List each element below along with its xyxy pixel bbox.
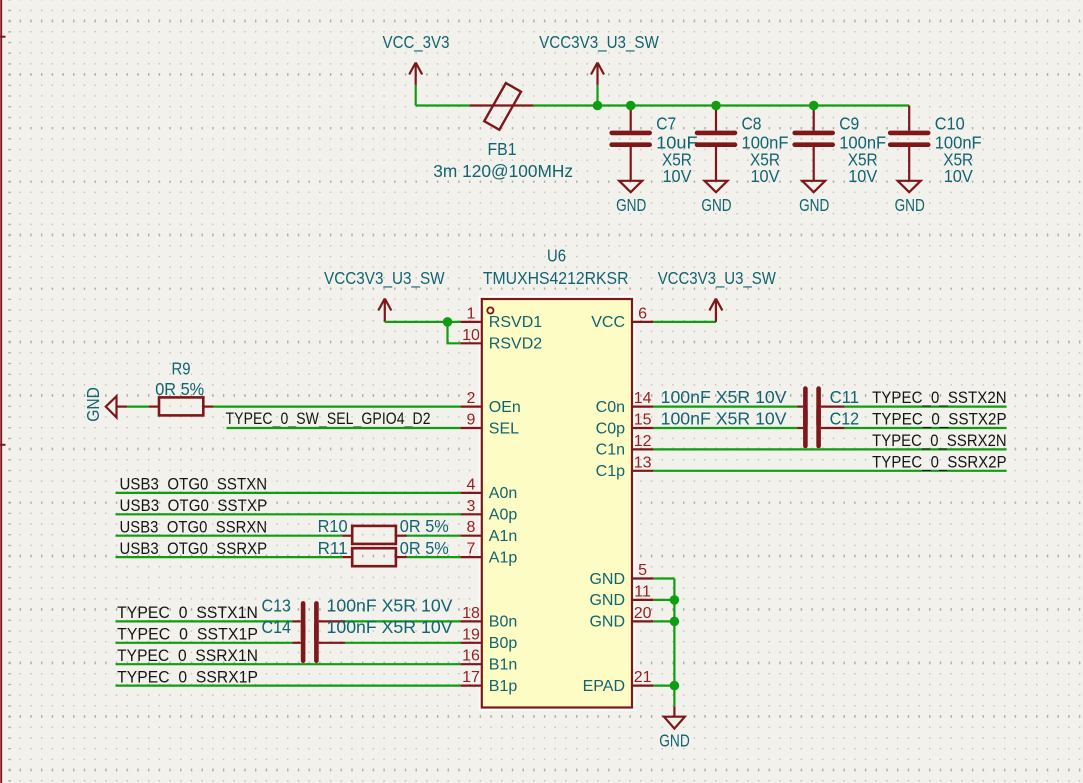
svg-text:3m 120@100MHz: 3m 120@100MHz xyxy=(433,161,573,181)
svg-text:USB3_OTG0_SSTXP: USB3_OTG0_SSTXP xyxy=(120,496,268,515)
svg-text:TYPEC_0_SSRX2P: TYPEC_0_SSRX2P xyxy=(872,452,1007,471)
svg-text:RSVD2: RSVD2 xyxy=(489,336,542,353)
pin 6 VCC (right) xyxy=(591,305,653,331)
wire U6 to C12 xyxy=(653,427,797,429)
pin 17 B1p (left) xyxy=(460,669,517,695)
power symbol VCC3V3_U3_SW top xyxy=(539,32,659,85)
svg-text:A0p: A0p xyxy=(489,507,518,524)
svg-text:GND: GND xyxy=(589,614,625,631)
svg-text:C0p: C0p xyxy=(596,420,625,437)
svg-text:R11: R11 xyxy=(318,538,348,558)
svg-text:USB3_OTG0_SSRXP: USB3_OTG0_SSRXP xyxy=(120,539,268,558)
power symbol VCC3V3_U3_SW right xyxy=(658,268,777,322)
svg-text:19: 19 xyxy=(462,626,480,643)
capacitor C13 100nF X5R 10V xyxy=(262,596,453,640)
svg-text:C8: C8 xyxy=(742,114,762,134)
svg-text:C9: C9 xyxy=(839,114,859,134)
svg-text:C13: C13 xyxy=(262,596,292,616)
svg-text:C7: C7 xyxy=(656,114,676,134)
svg-text:VCC3V3_U3_SW: VCC3V3_U3_SW xyxy=(539,32,659,53)
ground GND under C8 xyxy=(701,181,731,215)
svg-text:TYPEC_0_SSTX1P: TYPEC_0_SSTX1P xyxy=(117,625,258,644)
svg-text:10V: 10V xyxy=(751,166,780,186)
wire USB3_OTG0_SSRXP to R11 xyxy=(116,556,343,558)
wire USB3_OTG0_SSRXN to R10 xyxy=(116,535,343,537)
pin 9 SEL (left) xyxy=(460,412,519,438)
ferrite bead FB1 3m 120@100MHz xyxy=(433,83,573,181)
svg-text:GND: GND xyxy=(701,195,731,215)
svg-text:12: 12 xyxy=(634,433,652,450)
pin 21 EPAD (right) xyxy=(583,669,654,695)
svg-text:RSVD1: RSVD1 xyxy=(489,314,542,331)
IC U6 TMUXHS4212RKSR xyxy=(479,246,636,711)
svg-text:C12: C12 xyxy=(830,409,860,429)
svg-text:B0p: B0p xyxy=(489,635,518,652)
svg-text:GND: GND xyxy=(589,592,625,609)
wire GND bus vertical xyxy=(673,579,675,707)
pin 2 OEn (left) xyxy=(460,390,521,416)
resistor R10 0R 5% xyxy=(318,516,450,544)
svg-text:15: 15 xyxy=(634,412,652,429)
wire R9 to pin 2 OEn xyxy=(214,406,461,408)
svg-text:C0n: C0n xyxy=(596,399,625,416)
wire VCC3V3_U3_SW to pin 1 xyxy=(385,321,461,323)
svg-text:11: 11 xyxy=(634,583,651,600)
svg-text:VCC3V3_U3_SW: VCC3V3_U3_SW xyxy=(658,268,777,289)
pin 3 A0p (left) xyxy=(460,498,517,524)
svg-text:7: 7 xyxy=(467,541,476,558)
wire U6 to C11 xyxy=(653,406,797,408)
svg-text:100nF X5R 10V: 100nF X5R 10V xyxy=(327,596,453,616)
wire TYPEC_0_SSRX1N to U6 xyxy=(116,663,461,665)
resistor R9 0R 5% xyxy=(149,359,214,416)
svg-text:USB3_OTG0_SSTXN: USB3_OTG0_SSTXN xyxy=(120,475,268,494)
junction GND bus pin 20 xyxy=(670,617,680,627)
svg-text:TYPEC_0_SSTX2P: TYPEC_0_SSTX2P xyxy=(872,410,1007,429)
svg-text:C1p: C1p xyxy=(596,463,625,480)
pin 7 A1p (left) xyxy=(460,541,517,567)
wire U6 to TYPEC_0_SSRX2P xyxy=(653,470,1006,472)
svg-text:GND: GND xyxy=(616,195,646,215)
svg-text:GND: GND xyxy=(895,195,925,215)
svg-text:8: 8 xyxy=(467,519,476,536)
svg-text:1: 1 xyxy=(467,305,476,322)
svg-text:GND: GND xyxy=(659,730,690,750)
ground GND under C10 xyxy=(895,181,925,215)
pin 20 GND (right) xyxy=(589,605,653,631)
svg-text:VCC_3V3: VCC_3V3 xyxy=(383,32,450,53)
pin 11 GND (right) xyxy=(589,583,653,609)
pin 5 GND (right) xyxy=(589,562,653,588)
ground GND at R9 (left arrow) xyxy=(83,387,127,422)
capacitor C11 100nF X5R 10V xyxy=(661,387,860,424)
svg-text:B1p: B1p xyxy=(489,678,518,695)
svg-text:0R 5%: 0R 5% xyxy=(400,538,449,558)
pin 13 C1p (right) xyxy=(596,454,654,480)
junction C7 at VCC rail xyxy=(626,101,636,111)
wire pin 5 GND xyxy=(653,577,674,579)
capacitor C9 100nF X5R 10V xyxy=(795,106,887,187)
svg-text:TYPEC_0_SSTX1N: TYPEC_0_SSTX1N xyxy=(117,603,258,622)
wire VCC3V3_U3_SW drop xyxy=(596,85,598,106)
svg-text:21: 21 xyxy=(634,669,652,686)
wire VCC rail FB1 to C10 xyxy=(533,104,909,106)
svg-text:13: 13 xyxy=(634,454,652,471)
wire C14 to U6 xyxy=(345,642,460,644)
svg-text:TMUXHS4212RKSR: TMUXHS4212RKSR xyxy=(483,268,629,288)
svg-text:100nF X5R 10V: 100nF X5R 10V xyxy=(661,387,787,407)
svg-text:4: 4 xyxy=(467,476,476,493)
pin 4 A0n (left) xyxy=(460,476,517,502)
svg-text:U6: U6 xyxy=(547,246,566,266)
wire junction to pin 10 xyxy=(448,322,461,343)
svg-text:B1n: B1n xyxy=(489,657,517,674)
svg-text:16: 16 xyxy=(462,648,480,665)
wire C13 to U6 xyxy=(345,620,460,622)
ground GND below U6 xyxy=(659,706,690,750)
wire R11 to U6 xyxy=(407,556,460,558)
svg-text:3: 3 xyxy=(467,498,476,515)
capacitor C12 100nF X5R 10V xyxy=(661,409,860,446)
svg-text:10: 10 xyxy=(462,327,480,344)
wire U6 to TYPEC_0_SSRX2N xyxy=(653,448,1006,450)
svg-text:20: 20 xyxy=(634,605,652,622)
svg-text:18: 18 xyxy=(462,605,480,622)
svg-text:17: 17 xyxy=(462,669,480,686)
svg-text:TYPEC_0_SW_SEL_GPIO4_D2: TYPEC_0_SW_SEL_GPIO4_D2 xyxy=(226,409,431,428)
capacitor C10 100nF X5R 10V xyxy=(890,106,982,187)
svg-text:OEn: OEn xyxy=(489,399,521,416)
pin 10 RSVD2 (left) xyxy=(460,327,542,353)
svg-text:C10: C10 xyxy=(935,114,965,134)
svg-text:TYPEC_0_SSRX2N: TYPEC_0_SSRX2N xyxy=(872,431,1007,450)
ground GND under C9 xyxy=(799,181,829,215)
svg-text:A0n: A0n xyxy=(489,485,517,502)
pin 19 B0p (left) xyxy=(460,626,517,652)
pin 18 B0n (left) xyxy=(460,605,517,631)
wire R10 to U6 xyxy=(407,535,460,537)
pin 12 C1n (right) xyxy=(596,433,654,459)
svg-text:R9: R9 xyxy=(172,359,191,379)
junction GND bus pin 11 xyxy=(670,595,680,605)
svg-text:USB3_OTG0_SSRXN: USB3_OTG0_SSRXN xyxy=(120,517,268,536)
svg-text:TYPEC_0_SSRX1P: TYPEC_0_SSRX1P xyxy=(117,667,258,686)
wire GND to R9 xyxy=(127,406,148,408)
junction C8 at VCC rail xyxy=(711,101,721,111)
wire pin 21 EPAD xyxy=(653,684,674,686)
svg-text:A1p: A1p xyxy=(489,549,518,566)
wire USB3_OTG0_SSTXP to U6 xyxy=(116,513,461,515)
svg-text:0R 5%: 0R 5% xyxy=(400,516,449,536)
wire C12 to TYPEC_0_SSTX2P xyxy=(845,427,1007,429)
svg-text:10V: 10V xyxy=(662,166,691,186)
svg-text:GND: GND xyxy=(83,387,103,422)
pin 1 RSVD1 (left) xyxy=(460,305,542,331)
svg-text:100nF X5R 10V: 100nF X5R 10V xyxy=(661,409,787,429)
wire pin 11 GND xyxy=(653,599,674,601)
wire VCC_3V3 to FB1 xyxy=(416,104,470,106)
svg-text:FB1: FB1 xyxy=(488,139,517,159)
svg-text:EPAD: EPAD xyxy=(583,678,625,695)
junction GND bus EPAD xyxy=(670,681,680,691)
svg-text:GND: GND xyxy=(799,195,829,215)
pin 14 C0n (right) xyxy=(596,390,654,416)
svg-text:A1n: A1n xyxy=(489,528,517,545)
wire C11 to TYPEC_0_SSTX2N xyxy=(845,406,1007,408)
svg-text:C11: C11 xyxy=(830,387,860,407)
junction node RSVD1/RSVD2 xyxy=(443,317,453,327)
wire TYPEC_0_SSTX1P to C14 xyxy=(116,642,293,644)
wire TYPEC_0_SSTX1N to C13 xyxy=(116,620,293,622)
wire pin 20 GND xyxy=(653,620,674,622)
wire SEL net to pin 9 xyxy=(227,427,461,429)
svg-text:14: 14 xyxy=(634,390,652,407)
resistor R11 0R 5% xyxy=(318,538,450,566)
svg-text:VCC3V3_U3_SW: VCC3V3_U3_SW xyxy=(324,268,445,289)
svg-text:2: 2 xyxy=(467,390,476,407)
capacitor C8 100nF X5R 10V xyxy=(697,106,789,187)
svg-text:5: 5 xyxy=(638,562,647,579)
capacitor C7 10uF X5R 10V xyxy=(612,106,698,187)
svg-text:6: 6 xyxy=(638,305,647,322)
svg-text:0R 5%: 0R 5% xyxy=(155,379,204,399)
ground GND under C7 xyxy=(616,181,646,215)
svg-text:C1n: C1n xyxy=(596,442,625,459)
capacitor C14 100nF X5R 10V xyxy=(262,617,453,661)
wire USB3_OTG0_SSTXN to U6 xyxy=(116,492,461,494)
wire VCC_3V3 drop xyxy=(415,85,417,106)
wire TYPEC_0_SSRX1P to U6 xyxy=(116,684,461,686)
junction C9 at VCC rail xyxy=(809,101,819,111)
svg-text:R10: R10 xyxy=(318,516,348,536)
svg-text:VCC: VCC xyxy=(591,314,625,331)
svg-text:TYPEC_0_SSRX1N: TYPEC_0_SSRX1N xyxy=(117,646,258,665)
svg-text:TYPEC_0_SSTX2N: TYPEC_0_SSTX2N xyxy=(872,388,1007,407)
junction VCC3V3_U3_SW at rail xyxy=(593,101,603,111)
svg-text:9: 9 xyxy=(467,412,476,429)
svg-text:10V: 10V xyxy=(944,166,973,186)
pin 8 A1n (left) xyxy=(460,519,517,545)
wire pin 6 VCC to power symbol xyxy=(653,321,716,323)
pin 15 C0p (right) xyxy=(596,412,654,438)
svg-text:C14: C14 xyxy=(262,617,292,637)
power symbol VCC_3V3 xyxy=(383,32,450,85)
power symbol VCC3V3_U3_SW left xyxy=(324,268,445,322)
svg-text:B0n: B0n xyxy=(489,614,517,631)
pin 16 B1n (left) xyxy=(460,648,517,674)
svg-text:10V: 10V xyxy=(848,166,877,186)
svg-text:100nF X5R 10V: 100nF X5R 10V xyxy=(327,617,453,637)
svg-text:GND: GND xyxy=(589,571,625,588)
svg-text:SEL: SEL xyxy=(489,420,519,437)
